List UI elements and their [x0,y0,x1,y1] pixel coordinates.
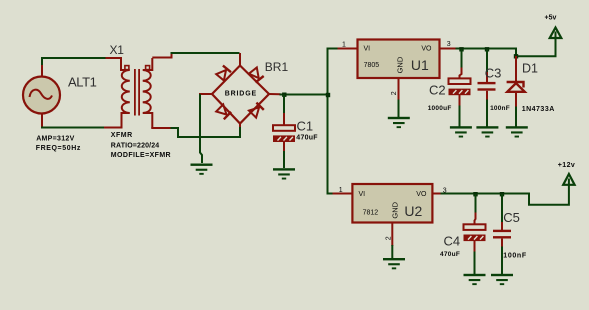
wire U1 VI pin [338,48,359,50]
wire ALT1 top to X1 [42,58,107,66]
zener diode D1 [507,82,524,88]
wire C3 top lead green [486,49,488,73]
wire U1 output rail [456,32,556,57]
wire C1 bottom lead red [283,142,285,153]
AC source ALT1 [23,77,60,114]
wire ALT1 bottom to X1 [41,127,105,129]
ground below D1 [506,126,528,137]
wire C5 bottom lead red [501,239,503,248]
wire C1 top lead red [283,113,285,126]
wire C2 bottom lead green [459,106,461,127]
wire C4 bottom lead green [474,252,476,275]
transformer X1 core [134,69,136,116]
svg-text:+12v: +12v [558,162,575,169]
junction C2 [459,47,463,51]
ground below U1 [388,117,410,128]
capacitor C2 [449,78,471,84]
svg-text:7812: 7812 [363,210,379,217]
junction C4 [473,192,477,196]
svg-text:C2: C2 [429,82,446,97]
ground below C1 [273,168,295,179]
wire C1 bottom lead green [283,151,285,168]
svg-text:7805: 7805 [364,62,380,69]
svg-text:100nF: 100nF [503,252,527,259]
wire X1 primary bottom lead [104,127,122,129]
wire X1 primary top lead [106,57,122,59]
svg-text:C3: C3 [485,66,502,81]
ground below bridge [191,164,213,175]
capacitor C1 [273,125,295,131]
wire C2 top lead green [461,49,463,69]
wire X1 secondary bottom lead [151,127,171,129]
polarity dot secondary [146,66,150,70]
wire bridge bottom stub [239,123,241,127]
svg-text:3: 3 [443,188,447,195]
svg-text:D1: D1 [522,61,538,75]
svg-text:XFMR: XFMR [111,132,133,139]
wire U2 VI pin [333,193,354,195]
svg-text:470uF: 470uF [296,135,318,142]
svg-text:BR1: BR1 [265,60,289,74]
power terminal +5v [550,28,562,39]
junction C5 [500,192,504,196]
svg-text:C5: C5 [503,210,520,225]
junction C1 node [282,93,286,97]
wire bridge right stub [269,93,281,95]
wire bridge left stub [199,93,212,95]
junction D1 [514,54,518,58]
bridge BR1 body [212,66,269,124]
wire U2 GND to ground [391,245,393,259]
wire U1 GND pin [398,78,400,101]
wire X1 top to bridge [171,52,240,54]
svg-text:AMP=312V: AMP=312V [36,136,74,143]
svg-text:3: 3 [447,41,451,48]
svg-text:ALT1: ALT1 [68,75,97,90]
wire D1 bottom lead green [515,107,517,127]
wire bridge to main node [280,94,329,96]
capacitor C5 [493,230,511,232]
regulator U2 7812 [352,184,432,223]
wire C3 top lead red [486,72,488,82]
svg-text:1: 1 [339,187,343,194]
svg-text:470uF: 470uF [440,251,460,258]
wire C1 top lead green [283,95,285,115]
wire U2 VO pin [432,193,442,195]
svg-text:VO: VO [416,191,427,198]
wire D1 top lead red [515,56,517,81]
bridge diode D-BL [216,104,226,114]
svg-text:+5v: +5v [545,15,557,22]
wire C2 bottom lead red [459,95,461,107]
svg-text:100nF: 100nF [490,105,510,112]
wire bridge top stub [239,53,241,66]
svg-text:U2: U2 [404,203,422,219]
svg-text:U1: U1 [411,57,429,73]
ground below C2 [450,126,472,137]
wire U1 VO pin [439,48,457,50]
transformer X1 secondary winding [143,58,153,128]
wire main DC rail vertical [327,49,329,194]
junction C3 [485,47,489,51]
wire C5 top lead green [501,194,503,223]
power terminal +12v [563,174,574,185]
svg-text:C4: C4 [444,233,461,248]
svg-text:MODFILE=XFMR: MODFILE=XFMR [111,152,171,159]
wire C4 top lead red [475,213,476,225]
svg-text:2: 2 [385,236,392,240]
wire C2 top lead red [460,68,462,79]
junction main rail [326,93,330,97]
ground below C3 [476,126,498,137]
svg-text:BRIDGE: BRIDGE [225,90,257,97]
svg-text:X1: X1 [110,43,125,57]
wire C4 top lead green [475,194,477,214]
capacitor C3 [478,82,496,84]
svg-text:VI: VI [364,45,371,52]
svg-text:FREQ=50Hz: FREQ=50Hz [36,145,81,152]
svg-text:1N4733A: 1N4733A [522,106,555,113]
wire D1 bottom lead red [515,92,517,108]
transformer X1 primary winding [121,57,130,129]
polarity dot primary [125,66,129,70]
wire U2 GND pin [391,222,393,247]
bridge diode D-BR [249,107,259,117]
svg-text:C1: C1 [297,119,314,134]
ground below C5 [491,274,513,285]
regulator U1 7805 [358,40,440,79]
svg-text:GND: GND [391,201,400,218]
wire C3 bottom lead green [486,100,488,127]
wire to U1 VI [327,48,339,50]
wire X1 secondary top lead [152,53,171,58]
bridge diode D-TR [249,68,259,79]
ground below C4 [464,274,486,285]
wire C5 top lead red [501,222,503,230]
svg-text:RATIO=220/24: RATIO=220/24 [111,142,160,149]
wire ALT1 top pin [41,65,43,78]
capacitor C4 [464,224,486,230]
svg-text:GND: GND [396,56,405,73]
ground below U2 [383,258,405,269]
wire bridge left to ground [200,94,202,163]
wire X1 bottom to bridge bottom [171,127,241,138]
svg-text:1: 1 [342,41,346,48]
wire to U2 VI [327,193,334,195]
wire C5 bottom lead green [501,247,503,275]
wire ALT1 bottom pin [41,113,43,128]
wire U2 output rail [441,179,569,205]
svg-text:VO: VO [421,45,432,52]
wire C4 bottom lead red [474,241,476,253]
svg-text:VI: VI [359,191,366,198]
svg-text:1000uF: 1000uF [428,105,452,112]
bridge diode D-TL [216,70,226,81]
svg-text:2: 2 [391,91,398,95]
wire U1 GND to ground [398,100,400,118]
wire C3 bottom lead red [486,91,488,101]
